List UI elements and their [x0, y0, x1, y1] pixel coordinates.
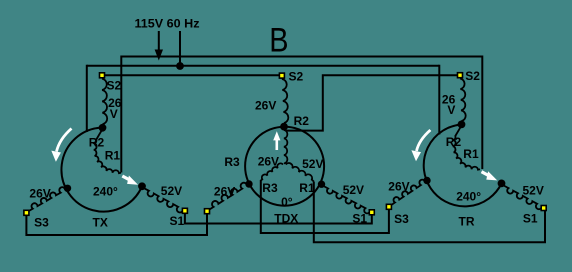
wire R2 bus drop to TX R2: [86, 65, 88, 132]
TR S2 stator winding (26V): [460, 79, 466, 122]
power lead 115V line 2 (dot terminal): [176, 31, 184, 70]
svg-text:52V: 52V: [302, 157, 323, 171]
TDX junction dot R2 (top of circle): [280, 123, 288, 131]
TX rotor pointer arrow (white): [122, 176, 138, 185]
wire TDX R3 to TR S3: [261, 180, 389, 233]
svg-text:R1: R1: [105, 149, 121, 163]
svg-text:115V 60 Hz: 115V 60 Hz: [135, 17, 200, 31]
TX label R1: [105, 149, 121, 163]
wire TX S2 to TDX S2: [102, 74, 282, 76]
synchro TR stator housing (arc): [424, 125, 502, 207]
svg-text:R3: R3: [224, 155, 240, 169]
svg-text:R3: R3: [262, 181, 278, 195]
svg-text:B: B: [269, 20, 288, 59]
svg-text:R1: R1: [299, 181, 315, 195]
synchro TDX stator housing (circle): [245, 127, 324, 206]
svg-text:R2: R2: [446, 135, 462, 149]
TR S3 stator winding (26V): [391, 180, 426, 206]
TX label S1: [170, 214, 185, 228]
TR junction dot S1 (lower right): [498, 180, 506, 188]
label B: [269, 20, 288, 59]
TX rotor winding R1-R2: [94, 129, 121, 173]
TR label 240 deg: [456, 189, 481, 203]
TDX S1 stator winding (52V): [324, 186, 371, 213]
wire R2 bus drop to TR R2: [438, 65, 440, 135]
TDX label TDX: [274, 212, 298, 226]
TDX label 52V (inside): [302, 157, 323, 171]
TX S2 stator winding (26V): [102, 79, 107, 125]
TX label S3: [34, 215, 49, 229]
TX label 26V (S3): [29, 187, 50, 201]
TR S1 stator winding (52V): [504, 186, 542, 210]
TX terminal S1 (yellow): [182, 208, 189, 215]
TR label S3: [394, 212, 409, 226]
TX label 52V (S1): [161, 184, 182, 198]
wire TDX R1 to TR S1: [314, 182, 545, 243]
label 115V 60 Hz: [135, 17, 200, 31]
TDX S2 stator winding (26V): [282, 79, 288, 123]
TX junction dot S1 (lower right): [138, 182, 146, 190]
svg-text:240°: 240°: [456, 189, 481, 203]
svg-text:240°: 240°: [93, 184, 118, 198]
TX junction dot R2 (top of circle): [99, 124, 107, 132]
TDX label 52V (S1 coil): [343, 183, 364, 197]
svg-text:R2: R2: [294, 114, 310, 128]
svg-text:26V: 26V: [258, 154, 279, 168]
TX label S2: [107, 78, 122, 92]
wire TDX R2 to TR S2: [286, 75, 460, 130]
TR label R1: [463, 147, 479, 161]
TX rotation arrow (white curved): [51, 129, 71, 162]
svg-text:R2: R2: [89, 135, 105, 149]
TDX label R2: [294, 114, 310, 128]
TDX terminal S3 (yellow): [204, 208, 211, 215]
svg-text:S2: S2: [465, 69, 480, 83]
TDX label 26V (S3 coil): [214, 185, 235, 199]
TR rotor winding R1-R2: [453, 126, 480, 170]
TR label S2: [465, 69, 480, 83]
svg-text:S1: S1: [523, 211, 538, 225]
TR label 26V (S3): [388, 179, 409, 193]
svg-text:V: V: [447, 103, 455, 117]
TDX junction dot S3 (lower left): [245, 180, 252, 187]
TDX label R1 (inside): [299, 181, 315, 195]
TDX junction dot S1 (lower right): [318, 181, 325, 188]
TX label 240 deg: [93, 184, 118, 198]
svg-text:S3: S3: [394, 212, 409, 226]
TR label R2: [446, 135, 462, 149]
svg-text:V: V: [110, 107, 118, 121]
TDX rotor winding R2 (vertical): [284, 130, 287, 164]
svg-text:S1: S1: [352, 211, 367, 225]
wire TX S3 to TDX S3: [26, 213, 207, 236]
power lead 115V line 1 (arrow terminal): [155, 31, 163, 61]
TDX terminal S2 (yellow): [279, 72, 286, 79]
TDX label S1: [352, 211, 367, 225]
svg-text:52V: 52V: [343, 183, 364, 197]
TR rotor pointer arrow (white): [482, 171, 498, 180]
wire R1 bus (top horizontal): [121, 56, 482, 58]
svg-text:S2: S2: [107, 78, 122, 92]
TR label 26 V: [442, 92, 456, 117]
TDX terminal S1 (yellow): [369, 209, 376, 216]
TDX label 26V (inside): [258, 154, 279, 168]
TR label TR: [459, 215, 475, 229]
TX S1 stator winding (52V): [144, 188, 183, 212]
svg-text:26V: 26V: [214, 185, 235, 199]
TR terminal S2 (yellow): [457, 72, 464, 79]
svg-text:26V: 26V: [29, 187, 50, 201]
svg-text:TDX: TDX: [274, 212, 298, 226]
TR terminal S3 (yellow): [386, 204, 393, 211]
TX terminal S3 (yellow): [23, 210, 30, 217]
TR label 52V (S1): [523, 184, 544, 198]
svg-text:TX: TX: [93, 215, 108, 229]
TR junction dot R2 (top of circle): [458, 121, 466, 129]
TR junction dot S3 (lower left): [423, 177, 430, 184]
svg-text:S2: S2: [289, 69, 304, 83]
TDX label R3 (inside): [262, 181, 278, 195]
svg-text:52V: 52V: [161, 184, 182, 198]
svg-text:26V: 26V: [255, 99, 276, 113]
svg-text:S1: S1: [170, 214, 185, 228]
TDX label 0 deg: [281, 195, 293, 209]
TR label S1: [523, 211, 538, 225]
svg-text:S3: S3: [34, 215, 49, 229]
TDX rotor winding R1 (lower right): [286, 163, 314, 181]
wire TX S1 to TDX S1: [185, 212, 372, 224]
svg-text:52V: 52V: [523, 184, 544, 198]
TDX rotor direction arrow (white, up): [273, 131, 280, 150]
TR terminal S1 (yellow): [540, 205, 547, 212]
TDX S3 stator winding (26V): [209, 183, 247, 210]
wire R1 bus drop to TX R1: [120, 56, 122, 173]
svg-text:0°: 0°: [281, 195, 293, 209]
TX S3 stator winding (26V): [28, 187, 65, 211]
TR rotation arrow (white curved): [411, 130, 430, 161]
synchro TX stator housing (arc): [61, 128, 142, 212]
wire R2 bus (second horizontal): [87, 65, 440, 67]
TX label TX: [93, 215, 108, 229]
TX label R2: [89, 135, 105, 149]
TX junction dot S3 (lower left): [64, 185, 71, 192]
svg-text:R1: R1: [463, 147, 479, 161]
svg-text:TR: TR: [459, 215, 475, 229]
TDX rotor winding R3 (lower left): [261, 163, 283, 180]
wire R1 bus drop to TR R1: [481, 56, 483, 170]
TDX label S2: [289, 69, 304, 83]
svg-text:26V: 26V: [388, 179, 409, 193]
TX label 26 V: [108, 96, 122, 121]
TDX label R3 (outside): [224, 155, 240, 169]
TDX label 26V (S2 coil): [255, 99, 276, 113]
TX terminal S2 (yellow): [99, 72, 106, 79]
